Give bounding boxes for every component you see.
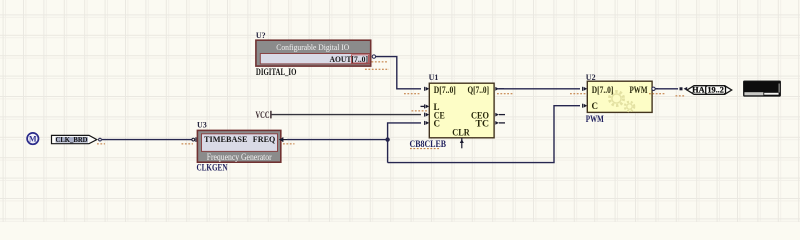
svg-text:M: M xyxy=(29,135,37,144)
wire U2 PWM to port HA xyxy=(656,88,678,90)
sheet symbol U3 CLKGEN (Frequency Generator) xyxy=(192,130,287,162)
svg-text:VCC: VCC xyxy=(256,110,270,120)
pin U1 C xyxy=(425,121,430,125)
junction xyxy=(385,137,389,141)
sheet symbol U? DIGITAL_IO (Configurable Digital IO) xyxy=(256,40,371,66)
wire bottom run to U2 C pin xyxy=(388,106,580,163)
label CB8CLEB xyxy=(410,139,447,149)
svg-text:Configurable Digital IO: Configurable Digital IO xyxy=(276,42,349,52)
designator U2 xyxy=(586,73,596,82)
pin U2 PWM output xyxy=(652,87,658,90)
svg-text:HA[19..2]: HA[19..2] xyxy=(692,86,727,95)
svg-text:PWM: PWM xyxy=(630,85,648,95)
svg-text:CB8CLEB: CB8CLEB xyxy=(410,139,447,149)
compile warning squiggles xyxy=(97,62,685,149)
svg-text:TIMEBASE: TIMEBASE xyxy=(204,134,248,144)
svg-text:CLR: CLR xyxy=(452,128,470,138)
pin U2 C xyxy=(583,104,588,108)
designator U1 xyxy=(429,73,439,82)
svg-text:CLKGEN: CLKGEN xyxy=(197,163,228,173)
port HA[19..2] xyxy=(687,86,732,95)
pin U1 CE xyxy=(425,113,430,117)
svg-text:DIGITAL_IO: DIGITAL_IO xyxy=(256,67,297,77)
node marker at HA port xyxy=(680,87,688,91)
component U2 PWM xyxy=(587,81,652,112)
pin U2 D xyxy=(583,87,588,91)
ui overlay black box xyxy=(743,81,780,96)
pin AOUT output terminal xyxy=(372,55,375,58)
pin U1 Q xyxy=(495,87,504,91)
wire VCC to U1 CE pin xyxy=(272,114,421,116)
wire riser to U1 C pin xyxy=(388,123,421,163)
svg-text:U?: U? xyxy=(256,31,266,40)
clock source icon xyxy=(27,133,38,144)
pin U1 CEO xyxy=(495,113,505,117)
svg-text:TC: TC xyxy=(476,119,490,129)
svg-text:C: C xyxy=(434,119,441,129)
svg-text:CLK_BRD: CLK_BRD xyxy=(56,135,89,144)
svg-text:C: C xyxy=(592,101,599,111)
svg-text:D[7..0]: D[7..0] xyxy=(434,85,456,95)
designator U? xyxy=(256,31,266,40)
label DIGITAL_IO xyxy=(256,67,297,77)
label CLKGEN xyxy=(197,163,228,173)
pin U1 TC xyxy=(495,121,505,125)
pin U1 L xyxy=(421,104,430,108)
wire FREQ to junction xyxy=(287,139,388,141)
component U1 CB8CLEB counter xyxy=(429,83,494,138)
svg-text:Frequency Generator: Frequency Generator xyxy=(207,152,272,162)
pin U1 CLR xyxy=(460,138,464,148)
designator U3 xyxy=(197,120,207,129)
svg-text:Q[7..0]: Q[7..0] xyxy=(468,85,490,95)
svg-text:U2: U2 xyxy=(586,73,596,82)
wire AOUT to U1 D pin xyxy=(376,57,421,89)
svg-text:U3: U3 xyxy=(197,120,207,129)
svg-text:AOUT[7..0]: AOUT[7..0] xyxy=(330,54,369,64)
svg-text:U1: U1 xyxy=(429,73,439,82)
port CLK_BRD xyxy=(52,135,102,144)
label PWM xyxy=(586,114,604,124)
wire CLK_BRD to U3 TIMEBASE xyxy=(102,139,192,141)
svg-text:FREQ: FREQ xyxy=(253,134,276,144)
svg-text:D[7..0]: D[7..0] xyxy=(592,85,614,95)
wire U1 Q to U2 D xyxy=(497,88,580,90)
power port VCC xyxy=(256,110,271,120)
pin U1 D xyxy=(425,87,430,91)
svg-text:PWM: PWM xyxy=(586,114,604,124)
